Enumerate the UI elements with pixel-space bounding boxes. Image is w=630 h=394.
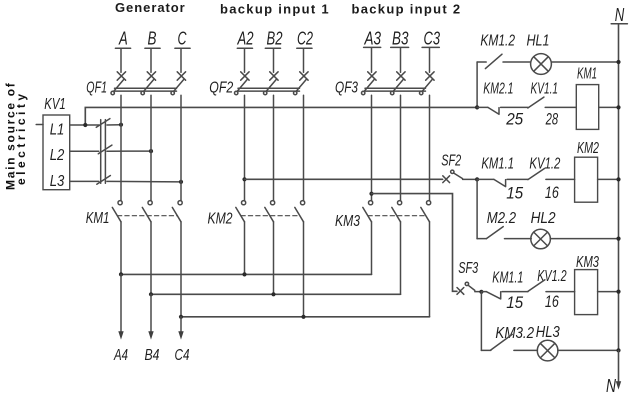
contact KM1.1 (row3) [494,179,506,186]
svg-text:KV1.1: KV1.1 [531,81,559,98]
wire phase B3 upper [400,48,402,72]
svg-text:15: 15 [506,185,524,203]
breaker QF3 tie bar [365,88,426,91]
svg-text:15: 15 [506,294,524,312]
label Main source of electricity (rotated) [4,82,29,190]
svg-text:KM1.1: KM1.1 [492,270,523,287]
wire phase C upper [180,49,182,73]
svg-text:KM2: KM2 [577,140,599,157]
junction bus1-KM1 [119,272,123,276]
wire phase C2 mid [303,95,305,200]
contactor KM2 pole A2 [236,201,246,222]
junction L1-A [119,123,123,127]
svg-text:HL3: HL3 [536,324,560,341]
wire phase C2 upper [303,49,305,73]
contact KM1.2 [485,54,502,68]
svg-text:C: C [178,29,188,49]
svg-text:KM3.2: KM3.2 [495,325,534,342]
wire row3 mid1 [507,178,528,180]
wire row4 mid [505,238,532,240]
wire N bus [618,24,620,350]
node B2 [267,29,283,49]
breaker QF2 pole B2 [264,72,279,95]
wire row2 mid2 [545,106,576,108]
coil KM2 [575,157,598,202]
switch blade L1 [96,119,110,128]
wire control feed from L1 to ladder rail [85,107,477,125]
svg-text:KM1: KM1 [86,210,110,227]
svg-text:backup input 1: backup input 1 [220,1,330,16]
wire KM1 pole A to bus1 [120,222,122,275]
svg-text:backup input 2: backup input 2 [352,1,462,16]
wire row3 left [477,178,494,180]
wire rail rows5-6 [480,292,482,351]
svg-text:28: 28 [545,111,559,129]
junction bus3-KM1 [179,315,183,319]
contact KM1.1 (row5) [486,292,501,299]
junction A2 to SF2 feed [242,177,246,181]
wire KM3 pole B3 to bus2 [400,222,402,294]
svg-text:SF3: SF3 [458,260,478,277]
wire L3 to phase C [70,180,181,183]
wire KM3 pole A3 to bus1 [371,222,373,275]
breaker QF2 tie bar [238,88,300,91]
junction bus3-KM2 [301,315,305,319]
node B [148,29,157,49]
wire row5 right [598,291,619,293]
breaker SF3 [457,282,475,294]
junction rail-row2 [475,105,479,109]
linkage KM1 (dashed) [118,215,178,217]
svg-text:A4: A4 [113,347,128,364]
svg-text:A2: A2 [237,29,254,49]
wire row5 mid1 [502,291,528,293]
wire phase A3 mid [371,95,373,200]
junction row1-N [616,60,620,64]
wire row4 right [550,238,618,240]
svg-text:M2.2: M2.2 [487,210,516,227]
breaker QF3 pole B3 [391,72,406,95]
contactor KM1 pole B [142,201,152,222]
wire SF3 feed from A3 [372,194,457,292]
svg-text:KM2: KM2 [208,211,233,228]
wire SF3 to node [475,291,482,293]
contact KM3.2 [491,334,512,350]
wire KM1 pole B to bus2 [150,222,152,294]
coil KM1 [576,85,598,130]
junction row2-N [616,105,620,109]
wire phase B2 mid [273,95,275,200]
wire row6 right [558,349,619,351]
junction bus2-KM2 [271,292,275,296]
svg-text:KM3: KM3 [335,213,360,230]
svg-text:N: N [606,376,617,394]
wire L2 to phase B [70,150,151,152]
breaker SF2 [443,170,463,183]
junction control tap on L1 [83,123,87,127]
wire row2 left [477,106,488,108]
wire phase A mid [120,95,122,200]
junction row4-N [616,237,620,241]
svg-text:C4: C4 [175,347,190,364]
breaker QF1 pole B [141,72,156,95]
svg-text:C3: C3 [424,29,441,49]
wire row4 left [477,238,486,240]
wire row1 left [477,61,486,63]
wire rail rows1-2 [476,62,478,107]
wire row3 right [598,178,619,180]
svg-text:QF1: QF1 [86,80,107,97]
breaker QF1 pole A [111,72,126,95]
wire phase B mid [150,95,152,200]
wire output C4 [180,317,182,332]
wire row6 left [481,349,490,351]
svg-text:KV1.2: KV1.2 [529,156,560,173]
wire output bus 2 (phase B) [151,293,401,295]
svg-text:B2: B2 [267,29,283,49]
linkage KM2 (dashed) [241,215,300,217]
wire phase A3 upper [371,48,373,72]
wire row6 mid [514,349,538,351]
stub into KV1 left [36,124,43,126]
contactor KM3 pole B3 [392,201,402,222]
wire phase C3 upper [429,48,431,72]
wire row3 mid2 [546,178,575,180]
svg-text:KM1.2: KM1.2 [480,33,515,50]
breaker QF1 tie bar [115,88,177,91]
junction bus2-KM1 [149,292,153,296]
wire row2 right [599,106,619,108]
svg-text:Generator: Generator [115,0,186,15]
wire row1 mid [503,61,531,63]
contact M2.2 [486,227,503,239]
linkage bars of KV1 switch [101,120,106,184]
junction L3-C [179,180,183,184]
coil KM3 [575,270,598,315]
wire row5 left [481,291,486,293]
relay KV1 box [43,115,70,190]
lamp HL3 [537,340,558,361]
svg-text:16: 16 [545,293,560,311]
wire row5 mid2 [546,291,575,293]
junction L2-B [149,149,153,153]
svg-text:KM1: KM1 [577,66,597,83]
svg-text:C2: C2 [297,29,313,49]
wire row2 mid1 [501,106,528,108]
wire phase C mid [180,95,182,200]
svg-text:A: A [118,29,127,49]
svg-text:QF2: QF2 [209,80,233,97]
lamp HL2 [531,229,551,249]
svg-text:N: N [615,5,625,25]
node C [178,29,188,49]
contactor KM3 pole A3 [363,201,373,222]
breaker QF2 pole C2 [294,72,309,95]
breaker QF2 pole A2 [235,72,250,95]
wire SF2 feed from A2 [245,178,443,180]
linkage KM3 (dashed) [368,215,426,217]
junction row6-N corner [616,348,620,352]
svg-text:KM1.1: KM1.1 [481,156,514,173]
node B3 [392,29,409,49]
switch blade L2 [98,145,112,154]
svg-text:B3: B3 [392,29,409,49]
junction row5-N [616,290,620,294]
contactor KM2 pole C2 [295,201,305,222]
wire KM2 pole A2 to bus1 [244,222,246,275]
wire rail rows3-4 [476,179,478,238]
svg-text:L2: L2 [50,147,65,164]
wire KM1 pole C to bus3 [180,222,182,317]
contactor KM2 pole B2 [265,201,275,222]
svg-text:KV1: KV1 [44,96,65,113]
breaker QF1 pole C [171,72,186,95]
wire phase B3 mid [400,95,402,200]
svg-text:HL2: HL2 [531,210,556,227]
contact KM2.1 [488,107,499,114]
wire KM2 pole C2 to bus3 [303,222,305,317]
wire phase A2 mid [244,95,246,200]
junction SF3 node [479,290,483,294]
wire output A4 [120,274,122,331]
svg-text:16: 16 [545,184,560,202]
wire N bus bottom [618,350,620,381]
svg-text:25: 25 [505,111,524,129]
node A2 [237,29,254,49]
wire phase C3 mid [429,95,431,200]
wire phase A upper [120,49,122,73]
contactor KM3 pole C3 [421,201,431,222]
wire output B4 [150,294,152,332]
junction bus1-KM2 [242,272,246,276]
switch blade L3 [97,176,111,185]
wire KM3 pole C3 to bus3 [429,222,431,317]
node A [118,29,127,49]
wire row1 right [551,61,618,63]
contactor KM1 pole A [112,201,122,222]
svg-text:QF3: QF3 [335,80,358,97]
svg-text:HL1: HL1 [527,33,550,50]
junction SF2 node [475,177,479,181]
svg-text:SF2: SF2 [441,153,461,170]
wire phase A2 upper [244,49,246,73]
breaker QF3 pole A3 [362,72,377,95]
breaker QF3 pole C3 [420,72,435,95]
svg-text:L3: L3 [50,173,65,190]
node A3 [364,29,381,49]
wire L1 to phase A [70,124,121,126]
svg-text:B: B [148,29,157,49]
contact KV1.2 (row3) [528,168,545,179]
svg-text:A3: A3 [364,29,381,49]
contactor KM1 pole C [172,201,182,222]
node C2 [297,29,313,49]
svg-text:electricity: electricity [14,90,28,185]
junction row3-N [616,177,620,181]
contact KV1.1 [528,97,544,108]
lamp HL1 [531,54,552,75]
wire KM2 pole B2 to bus2 [273,222,275,294]
node C3 [424,29,441,49]
wire output bus 1 (phase A) [121,273,372,275]
wire phase B2 upper [273,49,275,73]
junction A3 to SF3 feed [369,192,373,196]
svg-text:L1: L1 [50,122,65,139]
svg-text:B4: B4 [145,347,160,364]
contact KV1.2 (row5) [528,280,545,292]
wire phase B upper [150,49,152,73]
svg-text:KM3: KM3 [576,254,599,271]
wire output bus 3 (phase C) [181,316,430,318]
svg-text:KM2.1: KM2.1 [483,81,513,98]
wire SF2 to rail [463,178,478,180]
